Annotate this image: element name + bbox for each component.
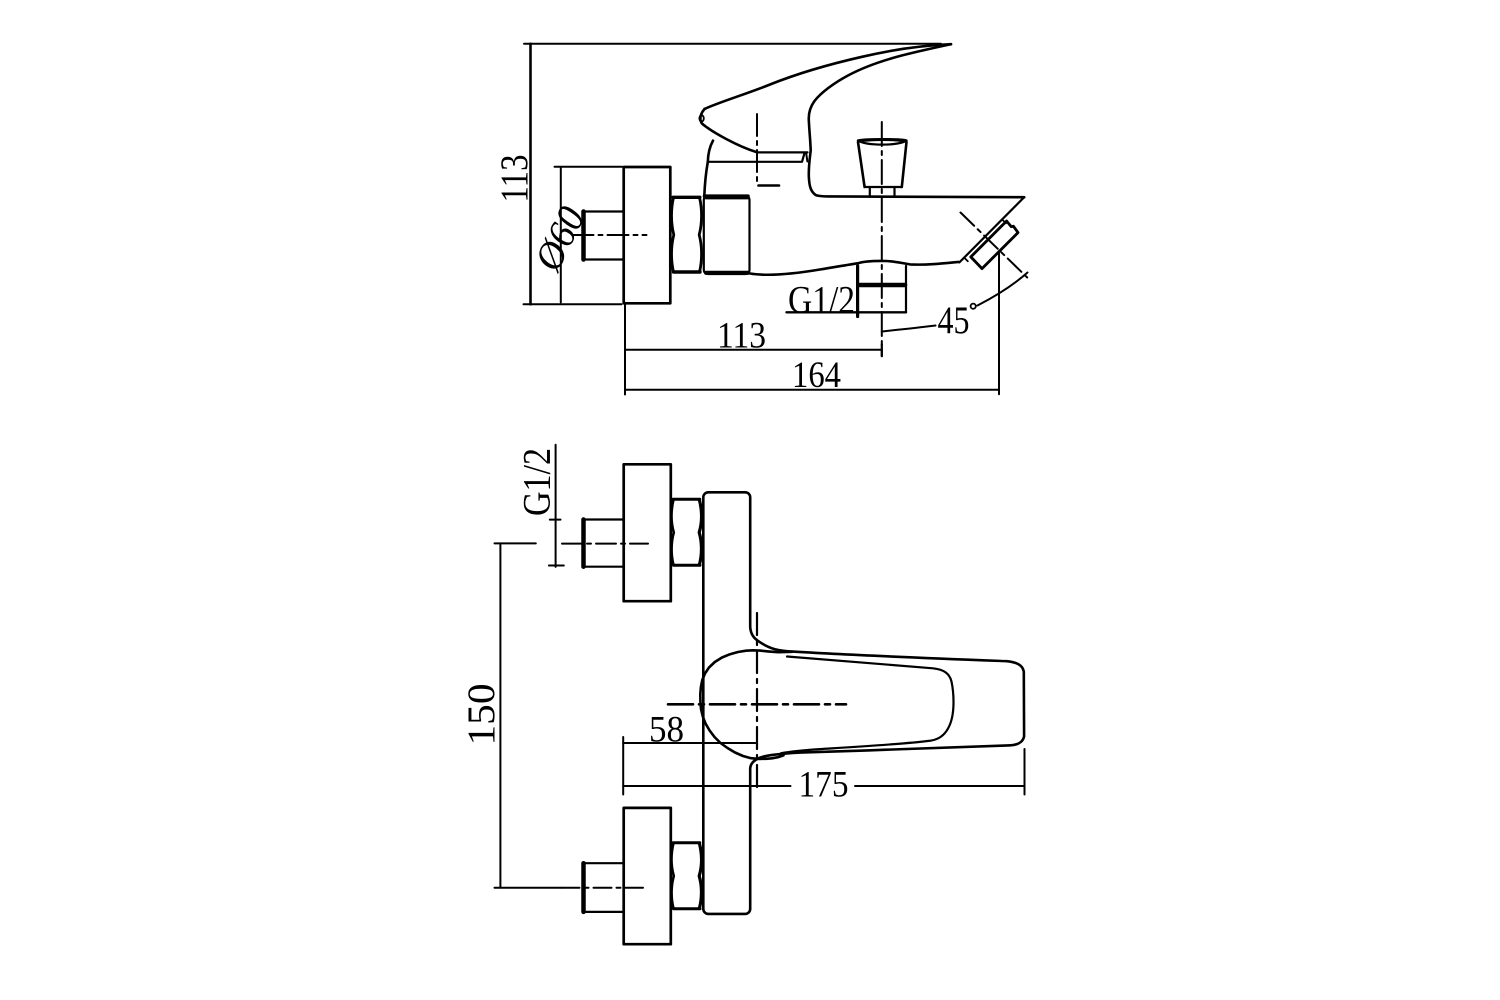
svg-text:164: 164	[792, 355, 841, 396]
svg-text:113: 113	[493, 155, 536, 203]
svg-text:G1/2: G1/2	[516, 448, 559, 516]
svg-text:58: 58	[649, 710, 684, 751]
svg-text:150: 150	[460, 684, 503, 746]
svg-text:113: 113	[717, 316, 766, 357]
svg-text:45: 45	[938, 299, 970, 342]
svg-text:G1/2: G1/2	[788, 279, 855, 322]
svg-text:175: 175	[799, 765, 849, 806]
